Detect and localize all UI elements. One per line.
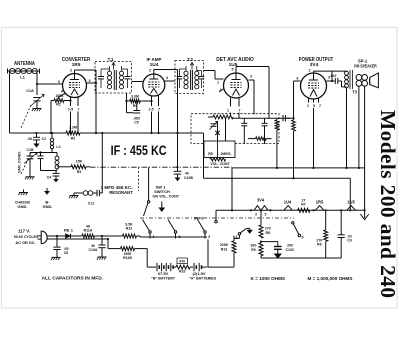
battery A 1.5V — [193, 263, 195, 271]
svg-text:VAR. COND.: VAR. COND. — [18, 151, 22, 173]
svg-text:RE 1: RE 1 — [64, 227, 74, 232]
svg-text:R9: R9 — [251, 248, 256, 252]
wire R3 to AVC line — [86, 166, 90, 168]
wire coupling to output grid — [285, 117, 293, 119]
capacitor C8 .05 — [56, 236, 58, 247]
svg-text:PM SPEAKER: PM SPEAKER — [354, 64, 377, 69]
T2 secondary capacitor — [201, 71, 203, 76]
wiper X mark — [225, 118, 227, 144]
switched bus y237 — [140, 236, 207, 238]
svg-text:1U4: 1U4 — [284, 200, 292, 205]
wire pin4 to R1 — [59, 94, 66, 98]
wire bottom rail — [300, 257, 341, 259]
ground B- main arrow — [360, 214, 368, 220]
svg-text:C1A: C1A — [26, 89, 34, 93]
svg-text:2: 2 — [179, 235, 181, 239]
resonant coil — [74, 192, 83, 194]
svg-text:.05: .05 — [27, 137, 32, 141]
wire B+ distribution y178.3 — [204, 177, 351, 179]
capacitor C9 .02 — [340, 210, 342, 234]
svg-text:5: 5 — [313, 104, 315, 108]
wire to R11B — [107, 238, 109, 240]
wire det pin3 down x254 — [249, 79, 255, 81]
T3 secondary loops — [356, 75, 362, 81]
svg-text:470: 470 — [179, 260, 185, 264]
wire resonant up — [101, 133, 103, 193]
svg-text:C11: C11 — [88, 202, 94, 206]
wire x350.3 down to filament — [349, 178, 351, 210]
transformer T2 box — [175, 61, 204, 94]
wire det pin7 down — [238, 98, 240, 107]
svg-text:T.1: T.1 — [108, 57, 114, 62]
wire SW arm to filament bus — [215, 210, 217, 220]
resonant capacitor C11 — [93, 192, 97, 194]
svg-text:117 V.: 117 V. — [18, 229, 30, 234]
wire T1 secondary to IF grid — [132, 81, 143, 83]
resistor R6 270 — [325, 210, 327, 230]
node C10A junction — [101, 235, 103, 237]
svg-text:2: 2 — [70, 69, 72, 73]
T2 primary capacitor — [179, 69, 181, 76]
svg-text:7: 7 — [158, 108, 160, 112]
filament tap arm 5 — [292, 222, 294, 224]
svg-text:“A” BATTERIES: “A” BATTERIES — [189, 276, 216, 281]
wire B+ vertical x177 — [177, 70, 179, 168]
AVC bus dash-dot — [90, 166, 232, 168]
svg-text:R5: R5 — [208, 152, 213, 156]
wire antenna left down — [9, 71, 11, 133]
svg-text:RESONANT: RESONANT — [109, 190, 133, 195]
battery B 67.5V — [156, 263, 158, 271]
wire R12 to switch — [137, 235, 141, 237]
ground chassis under C10A — [98, 256, 107, 258]
svg-text:3: 3 — [89, 79, 91, 83]
svg-text:C2: C2 — [42, 137, 47, 141]
T1 core — [113, 70, 115, 90]
svg-text:R8: R8 — [266, 231, 271, 235]
wire R8 top to dash bus — [260, 210, 262, 218]
svg-text:M = 1,000,000 OHMS: M = 1,000,000 OHMS — [308, 276, 353, 281]
wire battery left drop — [146, 249, 148, 268]
svg-text:2MEG.: 2MEG. — [220, 152, 231, 156]
wire pole2 up to B- bus — [175, 222, 177, 231]
svg-text:C10C: C10C — [286, 248, 295, 252]
svg-text:Models 200 and 240: Models 200 and 240 — [376, 110, 400, 298]
switch SW2 pole3 — [204, 231, 206, 233]
ground chassis under C8 — [52, 256, 61, 258]
svg-text:SW 2: SW 2 — [194, 215, 205, 220]
svg-text:GND.: GND. — [18, 204, 28, 209]
trimmer capacitor in vol box — [211, 123, 217, 125]
wire tickler to R3 — [57, 166, 71, 168]
svg-text:3: 3 — [208, 235, 210, 239]
dashed wire AVC to switch — [137, 167, 139, 191]
node C8 junction — [56, 235, 58, 237]
ground B- filled under C10C — [274, 254, 282, 259]
node R6 top — [325, 209, 327, 211]
svg-text:6: 6 — [297, 77, 299, 81]
T1 primary coil — [107, 71, 111, 75]
SW2 arm to arrow — [240, 228, 246, 232]
legend chassis ground symbol — [23, 190, 25, 193]
svg-text:5: 5 — [265, 212, 267, 216]
svg-text:“B” BATTERY: “B” BATTERY — [151, 276, 175, 281]
mechanical dash line switches — [140, 217, 294, 219]
gang dashed line C1B — [21, 153, 31, 174]
svg-text:1: 1 — [153, 235, 155, 239]
capacitor in vol box B — [264, 118, 266, 123]
wire R4 left loop — [127, 100, 130, 102]
svg-text:7: 7 — [78, 108, 80, 112]
svg-text:R2: R2 — [71, 136, 76, 140]
svg-text:.002: .002 — [330, 74, 337, 78]
T2 secondary coil — [195, 71, 199, 75]
svg-text:ANTENNA: ANTENNA — [14, 61, 35, 67]
wire main bus y133 — [10, 132, 67, 134]
capacitor C5 .063 — [133, 110, 140, 112]
switch SW1 upper contact — [148, 167, 150, 200]
svg-text:4: 4 — [61, 90, 63, 94]
wire tickler bottom — [56, 169, 58, 171]
wire det plate top — [235, 67, 237, 74]
svg-text:3V4: 3V4 — [257, 198, 265, 203]
wire B- solid y167.9 — [232, 167, 365, 169]
T1 secondary capacitor — [127, 69, 129, 76]
padder capacitor — [40, 153, 42, 156]
svg-text:5: 5 — [232, 68, 234, 72]
switch SW1 pole2 — [174, 231, 176, 233]
svg-text:1R5: 1R5 — [72, 62, 81, 68]
node bias to C10C — [261, 241, 278, 243]
resistor R10 470 — [177, 258, 188, 264]
svg-text:R10: R10 — [179, 270, 185, 274]
T2 tuning arrow — [191, 64, 193, 70]
svg-text:15K: 15K — [76, 159, 83, 163]
gang dashed line C1A — [21, 105, 32, 129]
svg-text:C4: C4 — [47, 176, 52, 180]
wire battery right up to pole3 — [207, 240, 209, 268]
svg-text:IF : 455 KC: IF : 455 KC — [111, 142, 167, 158]
capacitor in vol box A — [243, 118, 245, 123]
arrow B- at SW2 — [249, 228, 251, 229]
capacitor C4 — [55, 171, 57, 174]
svg-text:R7: R7 — [301, 202, 306, 206]
switch SW1 pole1 — [149, 231, 151, 233]
ground chassis under C1A — [33, 108, 42, 110]
T1 primary capacitor — [100, 69, 102, 76]
wire L2 to node — [51, 149, 53, 153]
svg-text:3: 3 — [166, 76, 168, 80]
wire speaker leads down — [358, 86, 360, 168]
ground chassis resonant — [70, 195, 79, 197]
wire converter pin3 — [87, 82, 97, 84]
resistor R8 270 — [260, 219, 262, 226]
wire IF plate to T2 — [165, 80, 175, 82]
svg-text:C5: C5 — [134, 121, 139, 125]
oscillator tickler coil — [56, 153, 58, 157]
audio line in box — [233, 117, 290, 119]
wire IF plate line — [153, 70, 155, 75]
svg-text:L1: L1 — [20, 75, 25, 80]
svg-text:R6: R6 — [317, 243, 322, 247]
legend B- ground symbol — [46, 188, 48, 191]
svg-text:T.2: T.2 — [187, 57, 193, 62]
wire T1 secondary bottom to R4 — [126, 93, 128, 101]
svg-text:3.3M: 3.3M — [69, 125, 77, 129]
svg-text:50-60 CYCLES: 50-60 CYCLES — [14, 234, 39, 239]
svg-text:6: 6 — [58, 80, 60, 84]
wire T3 primary bottom down — [346, 88, 348, 168]
resistor R-2 horizontal — [248, 138, 256, 140]
svg-text:VOL. CONT: VOL. CONT — [210, 162, 230, 166]
coupling capacitor output grid — [282, 115, 284, 121]
svg-text:3: 3 — [255, 212, 257, 216]
potentiometer R5 box — [204, 141, 235, 158]
wire R1 right to cathode — [64, 100, 71, 102]
wire antenna right down — [36, 71, 38, 95]
resistor R11B 2300 — [121, 247, 135, 251]
wire antenna to converter grid — [37, 83, 63, 85]
wire plug top out — [47, 235, 66, 237]
B- arrow on switch — [161, 202, 163, 208]
wire bus corner down x203.5 — [203, 133, 205, 178]
svg-text:1U5: 1U5 — [347, 200, 355, 205]
svg-text:R11A: R11A — [84, 228, 93, 232]
ground B- under C4 — [53, 179, 59, 182]
oscillator coil L2 — [51, 133, 53, 138]
wire x232 down to filament bus — [231, 168, 233, 210]
grid resistor output — [293, 118, 295, 120]
wire T2 to det grid — [204, 70, 216, 72]
svg-text:7: 7 — [319, 104, 321, 108]
wire det cathode down — [230, 98, 232, 107]
wire det top vertical x269 — [268, 67, 270, 119]
svg-text:R1: R1 — [56, 103, 61, 107]
svg-text:5: 5 — [302, 236, 304, 240]
wire R9 bottom rail — [261, 257, 300, 259]
svg-text:C1B: C1B — [26, 148, 33, 152]
svg-text:1U4: 1U4 — [150, 62, 159, 68]
T1 tuning arrow — [113, 64, 115, 70]
wire det pin4 — [219, 89, 224, 93]
wire output cathode down — [313, 108, 315, 168]
pot R5 zigzag — [210, 158, 226, 161]
resistor R9 620 — [259, 243, 263, 256]
switch SW2 pole4 — [238, 233, 240, 235]
wire B+ vertical x96 — [95, 70, 97, 133]
T2 primary coil — [184, 71, 188, 75]
svg-text:GND.: GND. — [43, 204, 53, 209]
svg-text:ALL CAPACITORS IN MFD.: ALL CAPACITORS IN MFD. — [42, 275, 104, 281]
svg-text:1: 1 — [227, 109, 229, 113]
volume control dashed box — [191, 114, 279, 144]
wire IF pin7 down — [158, 95, 160, 106]
svg-text:C8: C8 — [64, 251, 69, 255]
capacitor C10B 40 — [176, 166, 178, 168]
resistor in vol box — [276, 118, 278, 120]
svg-text:2: 2 — [309, 69, 311, 73]
svg-text:1-5: 1-5 — [68, 108, 73, 112]
ground B- under C10B — [175, 178, 181, 182]
svg-text:7: 7 — [239, 109, 241, 113]
wire converter pin7 down — [77, 98, 79, 107]
svg-text:1R5: 1R5 — [316, 200, 324, 205]
transformer T1 box — [95, 62, 132, 94]
svg-text:1: 1 — [217, 81, 219, 85]
wire plug bottom out — [47, 238, 108, 240]
T2 core — [190, 70, 192, 90]
ground chassis under C1B — [26, 176, 35, 178]
potentiometer R5 track — [213, 115, 233, 119]
transformer T3 primary coil — [345, 71, 349, 75]
ground B- arrow under C2 — [33, 144, 39, 148]
svg-text:3V4: 3V4 — [310, 62, 319, 68]
svg-text:1: 1 — [307, 104, 309, 108]
svg-text:K = 1000 OHMS: K = 1000 OHMS — [251, 276, 286, 281]
svg-text:R12: R12 — [126, 226, 132, 230]
antenna coil L1 — [8, 70, 40, 72]
svg-text:40: 40 — [185, 172, 189, 176]
T3 core — [349, 70, 351, 89]
svg-text:3: 3 — [250, 75, 252, 79]
wire converter cathode down — [70, 97, 72, 106]
svg-text:1-5: 1-5 — [148, 108, 153, 112]
node antenna-grid junction — [36, 83, 38, 85]
wire IF cathode down — [151, 96, 153, 107]
svg-text:C10A: C10A — [89, 248, 98, 252]
wire R1 left down — [51, 100, 54, 102]
svg-text:T3: T3 — [352, 90, 358, 95]
svg-text:AC OR DC.: AC OR DC. — [15, 240, 35, 245]
svg-text:R11B: R11B — [123, 256, 132, 260]
svg-text:C10B: C10B — [184, 176, 193, 180]
svg-text:R3: R3 — [77, 170, 82, 174]
switch SW1 upper arm — [144, 203, 148, 216]
wire converter plate to T1 — [74, 70, 76, 74]
wire output plate top — [313, 71, 315, 73]
power plug — [41, 231, 47, 244]
svg-text:L2: L2 — [56, 145, 60, 149]
T1 secondary coil — [119, 71, 123, 75]
wire B- corner to ground x364.6 — [364, 168, 366, 214]
capacitor C10C 200 body — [277, 242, 279, 247]
filament bus y210.3 — [216, 209, 365, 211]
svg-text:2: 2 — [149, 69, 151, 73]
svg-text:ON VOL. CONT: ON VOL. CONT — [153, 193, 180, 198]
svg-text:C9: C9 — [347, 239, 352, 243]
wire R4 right to cathode — [140, 100, 151, 102]
svg-text:R13: R13 — [221, 247, 227, 251]
capacitor C10A 40 — [101, 236, 103, 245]
